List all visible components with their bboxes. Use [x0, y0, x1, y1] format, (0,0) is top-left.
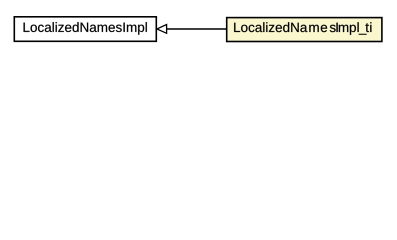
- class box LocalizedNamesImpl: [14, 17, 156, 42]
- class box LocalizedNamesImpl_ti (highlighted): [227, 18, 382, 42]
- wire (edge to subclass): [167, 28, 226, 30]
- inheritance arrow (hollow triangle): [157, 25, 167, 34]
